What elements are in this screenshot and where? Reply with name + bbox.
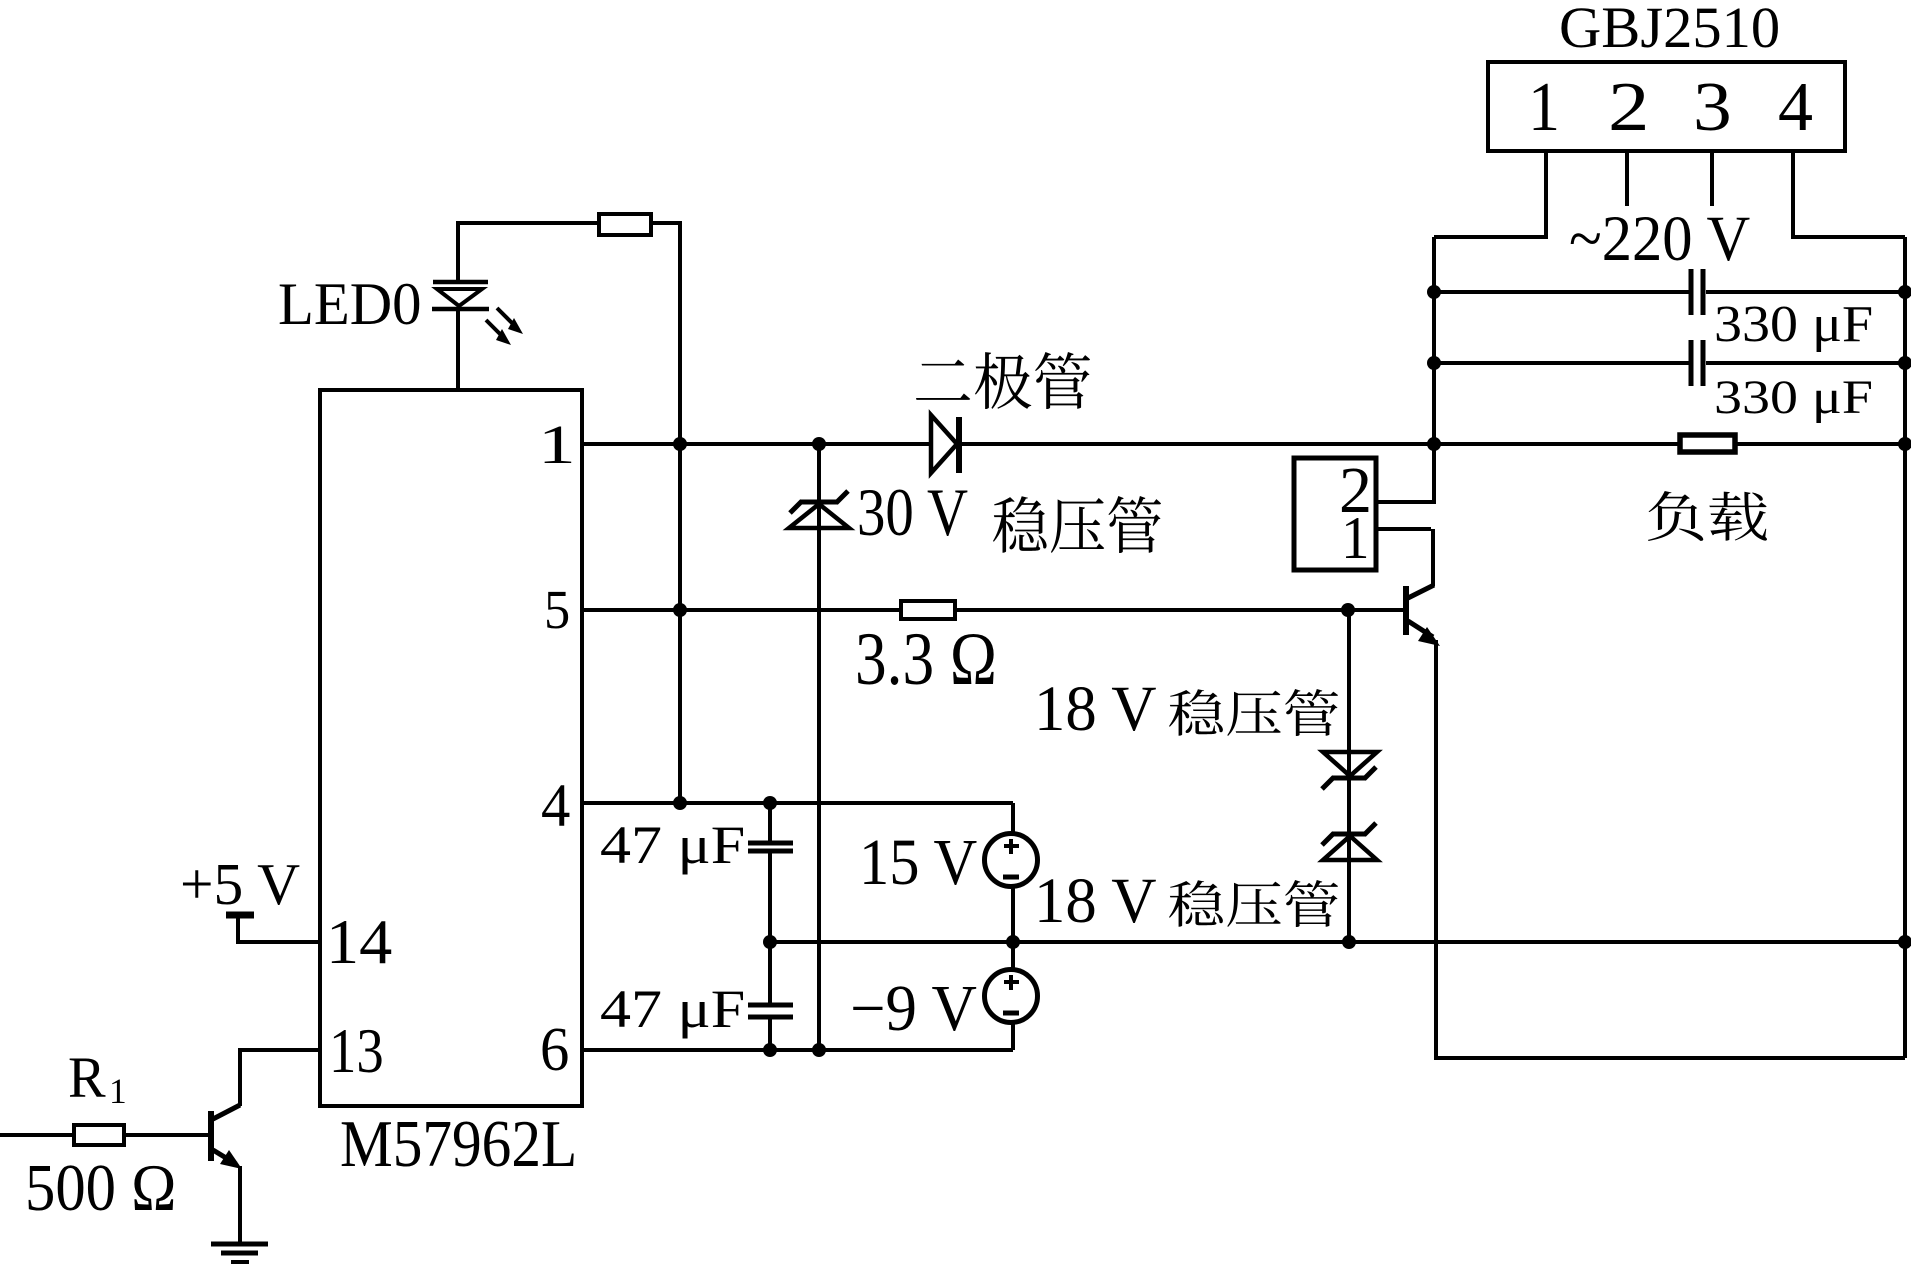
wire: pin1 line diode to left column — [960, 442, 1434, 446]
wire: Q2 emitter to ground — [238, 1166, 242, 1244]
wire: pin 1 line from IC to diode — [582, 442, 932, 446]
source 15V — [985, 834, 1038, 887]
label v220: ~220 V — [1569, 207, 1750, 272]
label b3: 3 — [1693, 73, 1732, 143]
label b1: 1 — [1528, 73, 1560, 143]
label b4: 4 — [1778, 73, 1813, 143]
label d30v: 30 V — [857, 479, 968, 547]
label gbj: GBJ2510 — [1559, 0, 1780, 57]
label c_wyg2: 稳压管 — [1169, 689, 1338, 736]
source −9V — [985, 970, 1038, 1023]
node: cap2 line junctions — [1427, 356, 1441, 370]
wire: GBJ pin4 to right edge — [1791, 235, 1905, 239]
wire: 18V zener vertical branch — [1347, 610, 1351, 944]
node: junction pin1/30V zener — [812, 437, 826, 451]
label rr: R — [68, 1049, 106, 1107]
transistor Q1 — [1403, 586, 1409, 635]
label z18b: 18 V — [1034, 869, 1157, 934]
wire: left column vertical — [1432, 237, 1436, 504]
wire: pin 6 line from IC — [582, 1048, 1013, 1052]
label c_ejg: 二极管 — [916, 352, 1090, 409]
capacitor C2 47μF — [748, 1003, 793, 1008]
zener 18V upper (cathode down) — [1323, 752, 1377, 776]
wire: GBJ pin 3 stub — [1710, 151, 1714, 206]
wire: pin13 drop to Q2 collector — [238, 1050, 242, 1106]
transistor Q2 — [208, 1111, 214, 1161]
resistor load (负载) — [1680, 435, 1735, 452]
node: junction pin4/cap branch — [763, 796, 777, 810]
resistor (LED series) — [599, 214, 651, 235]
label z18a: 18 V — [1034, 677, 1157, 742]
wire: GBJ pin 1 stub — [1544, 151, 1548, 239]
ground — [211, 1242, 268, 1247]
wire: 330uF cap line 1 — [1434, 290, 1689, 294]
wire: GBJ pin1 to left column — [1434, 235, 1548, 239]
wire: GBJ pin 2 stub — [1625, 151, 1629, 206]
wire: GBJ pin 4 stub — [1791, 151, 1795, 239]
wire: pin 13 line — [238, 1048, 322, 1052]
label c_fz: 负载 — [1648, 491, 1767, 541]
node: junction COM/right edge — [1898, 935, 1911, 949]
label mic: M57962L — [340, 1111, 577, 1178]
LED LED0 — [433, 280, 488, 285]
wire: R1 base line — [0, 1133, 74, 1137]
node: cap1 line junctions — [1427, 285, 1441, 299]
label uf47b: 47 μF — [600, 983, 745, 1037]
label ic4: 4 — [541, 776, 570, 837]
zener 18V lower (cathode up) — [1332, 832, 1366, 837]
capacitor C3 330μF — [1689, 269, 1694, 315]
node: junction COM/cap branch — [763, 935, 777, 949]
label uf47a: 47 μF — [600, 819, 745, 873]
wire: load line segments — [1434, 442, 1681, 446]
wire: LED cathode vertical to IC top — [456, 308, 460, 392]
wire: 30V zener vertical branch — [817, 444, 821, 1050]
node: junction pin4/resistor drop — [673, 796, 687, 810]
label c_wyg1: 稳压管 — [993, 496, 1161, 553]
wire: pin 14 line (+5V) — [236, 940, 322, 944]
label ic14: 14 — [326, 910, 392, 974]
node: junction pin1/resistor drop — [673, 437, 687, 451]
label r500: 500 Ω — [25, 1155, 176, 1222]
wire: module pin1 to Q1 collector — [1376, 527, 1431, 531]
label p5v: +5 V — [180, 855, 300, 915]
node: load line/right edge — [1898, 437, 1911, 451]
label led0: LED0 — [278, 274, 422, 334]
node: junction pin5/18V zener branch — [1341, 603, 1355, 617]
wire: right edge vertical — [1903, 237, 1907, 1058]
label m1: 1 — [1341, 508, 1370, 568]
capacitor C1 47μF — [748, 841, 793, 846]
wire: bottom return line — [1434, 1056, 1905, 1060]
node: junction pin6/30V zener branch — [812, 1043, 826, 1057]
node: junction COM/18V zener branch — [1342, 935, 1356, 949]
label r33: 3.3 Ω — [855, 622, 997, 697]
bridge GBJ2510 body — [1488, 62, 1845, 151]
IC U1 M57962L body — [320, 390, 582, 1106]
wire: vertical from resistor right end down to pin 4 line — [678, 221, 682, 803]
wire: pin 4 line from IC — [582, 801, 1013, 805]
diode D1 (二极管) — [931, 415, 957, 473]
node: junction COM/sources — [1006, 935, 1020, 949]
wire: 15V source verticals — [1011, 803, 1015, 835]
wire: pin5 line to transistor base — [954, 608, 1406, 612]
zener 30V (30 V 稳压管) — [800, 500, 838, 505]
label ic13: 13 — [329, 1019, 384, 1083]
label v9: −9 V — [850, 977, 977, 1043]
label b2: 2 — [1608, 73, 1649, 143]
label c_wyg3: 稳压管 — [1169, 880, 1338, 927]
wire: 330uF cap line 2 — [1434, 361, 1689, 365]
resistor 3.3Ω — [901, 601, 955, 619]
resistor R1 500Ω — [74, 1125, 124, 1145]
module box (IGBT pins 2/1) — [1294, 458, 1376, 570]
label m2: 2 — [1339, 458, 1372, 524]
label uf330a: 330 μF — [1714, 298, 1873, 350]
node: main line/left column — [1427, 437, 1441, 451]
wire: module pin2 to left column — [1376, 500, 1432, 504]
label ic5: 5 — [544, 582, 570, 637]
node: junction pin5/resistor drop — [673, 603, 687, 617]
wire: pin 5 line from IC — [582, 608, 902, 612]
node: junction pin6/cap branch — [763, 1043, 777, 1057]
wire: COM mid line — [770, 940, 1905, 944]
wire: capacitor branch verticals — [768, 803, 772, 841]
capacitor C4 330μF — [1689, 340, 1694, 386]
wire: Q1 emitter vertical — [1434, 640, 1438, 1060]
+5V terminal — [226, 912, 254, 919]
label rsub: 1 — [109, 1074, 127, 1110]
label v15: 15 V — [859, 831, 977, 897]
label ic6: 6 — [540, 1018, 569, 1081]
wire: LED anode vertical — [456, 223, 460, 284]
label ic1: 1 — [538, 417, 576, 472]
label uf330b: 330 μF — [1714, 374, 1873, 422]
wire: LED/resistor top loop horizontal — [456, 221, 600, 225]
